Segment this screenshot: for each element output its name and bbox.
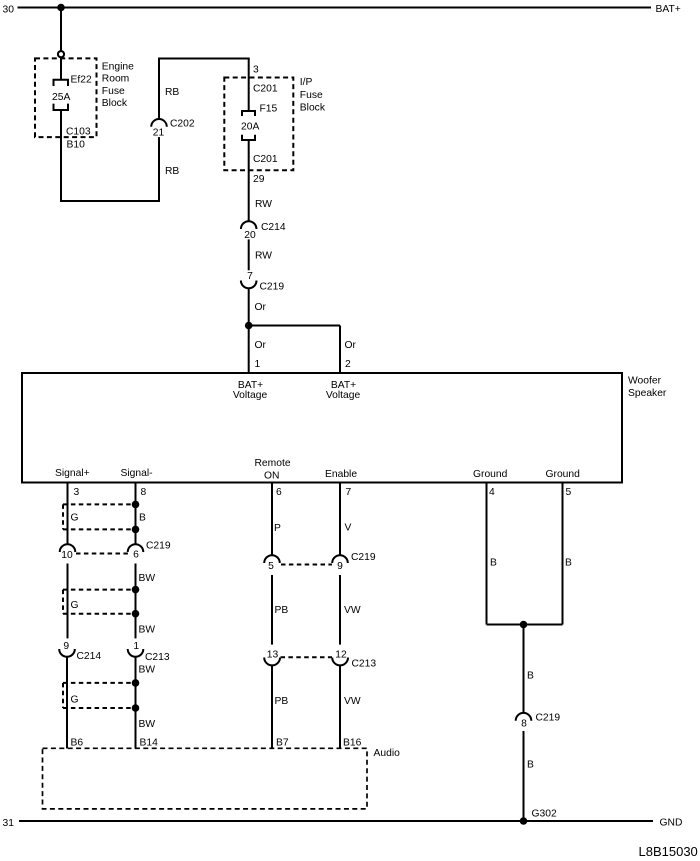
svg-text:P: P [274,523,281,534]
connector C219 pin 9 [332,555,348,563]
label remote on [255,458,291,482]
IP fuse block box [224,78,293,171]
wire Or branch to speaker pin 2 [339,326,341,374]
svg-text:RB: RB [165,166,179,177]
connector C214 pin 20 [241,221,257,229]
woofer speaker box [22,373,622,483]
svg-text:21: 21 [153,128,165,139]
tie C213 13-12 [281,656,333,658]
wire bottom horizontal to RB riser [60,200,160,202]
wire RW between connectors [248,239,250,270]
svg-text:L8B15030: L8B15030 [639,844,698,859]
svg-text:13: 13 [267,650,279,661]
wire signal+ pin 3 [67,483,69,545]
wire VW to audio B16 [339,665,341,748]
wire Or to speaker pin 1 [248,288,250,373]
svg-text:1: 1 [255,359,261,370]
svg-text:C103: C103 [66,127,91,138]
wire VW segment [339,575,341,645]
svg-text:4: 4 [489,487,495,498]
svg-text:31: 31 [3,818,15,829]
svg-text:Ef22: Ef22 [71,75,92,86]
svg-text:3: 3 [74,487,80,498]
svg-text:Room: Room [102,74,129,85]
wire P remote pin 6 [271,483,273,555]
svg-text:Woofer: Woofer [628,376,662,387]
svg-text:8: 8 [141,487,147,498]
svg-text:B16: B16 [343,738,362,749]
svg-text:V: V [345,523,352,534]
connector C213 pin 1 [128,649,144,657]
svg-text:B: B [565,558,572,569]
junction Or branch [245,322,253,330]
svg-text:Voltage: Voltage [326,390,361,401]
svg-text:1: 1 [133,641,139,652]
svg-text:PB: PB [275,605,289,616]
svg-text:5: 5 [566,487,572,498]
bus 31 GND [19,820,653,822]
svg-text:B6: B6 [71,738,84,749]
svg-text:G: G [71,695,79,706]
svg-text:F15: F15 [260,104,278,115]
connector C202 pin 21 [151,119,167,127]
svg-text:C219: C219 [351,552,376,563]
svg-text:C219: C219 [536,713,561,724]
wire B merged ground lower [523,731,525,821]
svg-text:B: B [527,760,534,771]
svg-text:C213: C213 [352,659,377,670]
svg-text:10: 10 [61,550,73,561]
svg-text:Signal+: Signal+ [55,468,90,479]
svg-text:25A: 25A [52,92,70,103]
wire ground pin 5 [562,483,564,625]
wire PB segment [271,575,273,645]
connector C214 pin 9 [59,649,75,657]
svg-text:Ground: Ground [473,469,508,480]
svg-text:C219: C219 [260,282,285,293]
wire drop into IP fuse block [248,59,250,112]
svg-text:6: 6 [133,550,139,561]
svg-text:C214: C214 [261,222,286,233]
engine room fuse block box [35,58,97,137]
svg-text:G: G [71,600,79,611]
svg-text:Or: Or [255,302,267,313]
svg-text:3: 3 [253,65,259,76]
fuse F15 20A [242,111,255,140]
shield loop 1 [63,504,136,529]
junction shield dot 1 [132,501,140,509]
svg-text:Or: Or [255,340,267,351]
svg-text:RW: RW [255,199,272,210]
connector C219 pin 5 [264,555,280,563]
svg-text:C201: C201 [253,84,278,95]
svg-text:Block: Block [300,102,326,113]
svg-text:G302: G302 [532,809,557,820]
audio unit box [43,748,368,809]
svg-text:BAT+: BAT+ [656,4,681,15]
label BAT+ voltage 1 [233,380,268,401]
label engine room fuse block [102,61,134,109]
svg-text:Enable: Enable [325,469,357,480]
svg-text:7: 7 [247,271,253,282]
svg-text:C202: C202 [170,119,195,130]
wire circle to fuse Ef22 [60,57,62,79]
wire fuse to corner [60,110,62,201]
fuse Ef22 25A [54,80,69,110]
svg-text:7: 7 [346,487,352,498]
svg-text:C219: C219 [146,541,171,552]
wire PB to audio B7 [271,665,273,748]
svg-text:Engine: Engine [102,61,134,72]
wire battery drop to fuse block [60,8,62,52]
svg-text:Voltage: Voltage [233,390,268,401]
svg-text:Block: Block [102,98,128,109]
svg-text:5: 5 [268,561,274,572]
bus 30 BAT+ [18,7,652,9]
wire RW fuse output [248,140,250,222]
connector C213 pin 13 [264,658,280,666]
junction shield dot 5 [132,679,140,687]
junction ground join [520,621,528,629]
svg-text:9: 9 [63,641,69,652]
label BAT+ voltage 2 [326,380,361,401]
wire RB riser upper [158,59,160,120]
svg-text:Speaker: Speaker [628,388,667,399]
svg-text:BW: BW [139,625,156,636]
svg-text:Ground: Ground [546,469,581,480]
svg-text:29: 29 [253,174,265,185]
svg-text:6: 6 [276,487,282,498]
shield loop 2 [63,590,136,614]
svg-text:RW: RW [255,251,272,262]
svg-text:9: 9 [337,561,343,572]
junction on bus 30 [57,4,65,12]
svg-text:C201: C201 [253,154,278,165]
svg-text:B: B [139,513,146,524]
svg-text:BW: BW [139,719,156,730]
terminal circle B10 [58,51,64,57]
shield loop 3 [63,683,136,708]
connector C219 pin 8 [516,713,532,721]
svg-text:B7: B7 [276,738,289,749]
connector C213 pin 12 [332,658,348,666]
wire Or branch horizontal [249,325,340,327]
junction shield dot 2 [132,526,140,534]
wire ground join [487,624,563,626]
wire BW segment 2 [135,564,137,639]
connector C219 pin 6 [128,544,144,552]
svg-text:20: 20 [244,230,256,241]
junction shield dot 3 [132,586,140,594]
wire G segment 2 [67,564,69,639]
wire B merged ground upper [523,625,525,714]
svg-text:G: G [71,513,79,524]
wire V enable pin 7 [339,483,341,555]
svg-text:Signal-: Signal- [121,468,153,479]
svg-text:B: B [490,558,497,569]
svg-text:C213: C213 [145,652,170,663]
svg-text:B10: B10 [67,140,86,151]
svg-text:RB: RB [165,87,179,98]
svg-text:BW: BW [139,665,156,676]
wire BW segment 3 [135,657,137,749]
junction G302 [520,817,528,825]
junction shield dot 6 [132,704,140,712]
svg-text:Or: Or [345,340,357,351]
svg-text:Remote: Remote [255,458,291,469]
svg-text:B14: B14 [140,738,159,749]
tie C219 5-9 [281,564,332,566]
svg-text:BW: BW [139,573,156,584]
wire G segment 3 [66,657,68,749]
connector C219 pin 10 [60,544,76,552]
wire signal- pin 8 [135,483,137,545]
tie C219 10-6 [76,553,128,555]
svg-text:Fuse: Fuse [102,86,125,97]
connector C219 pin 7 [241,281,257,289]
svg-text:Audio: Audio [374,748,401,759]
svg-text:VW: VW [344,696,361,707]
svg-text:2: 2 [345,359,351,370]
svg-text:C214: C214 [77,651,102,662]
svg-text:30: 30 [3,5,15,16]
svg-text:Fuse: Fuse [300,90,323,101]
svg-text:ON: ON [264,470,279,481]
svg-text:VW: VW [344,605,361,616]
svg-text:12: 12 [335,650,347,661]
svg-text:I/P: I/P [300,77,313,88]
svg-text:PB: PB [275,696,289,707]
svg-text:B: B [527,671,534,682]
svg-text:8: 8 [521,719,527,730]
label woofer speaker [628,376,667,400]
wire ground pin 4 [486,483,488,625]
wire top horizontal to IP fuse [158,58,250,60]
label IP fuse block [300,77,326,113]
svg-text:20A: 20A [241,122,259,133]
svg-text:GND: GND [660,818,683,829]
wire RB riser lower [158,137,160,201]
junction shield dot 4 [132,610,140,618]
